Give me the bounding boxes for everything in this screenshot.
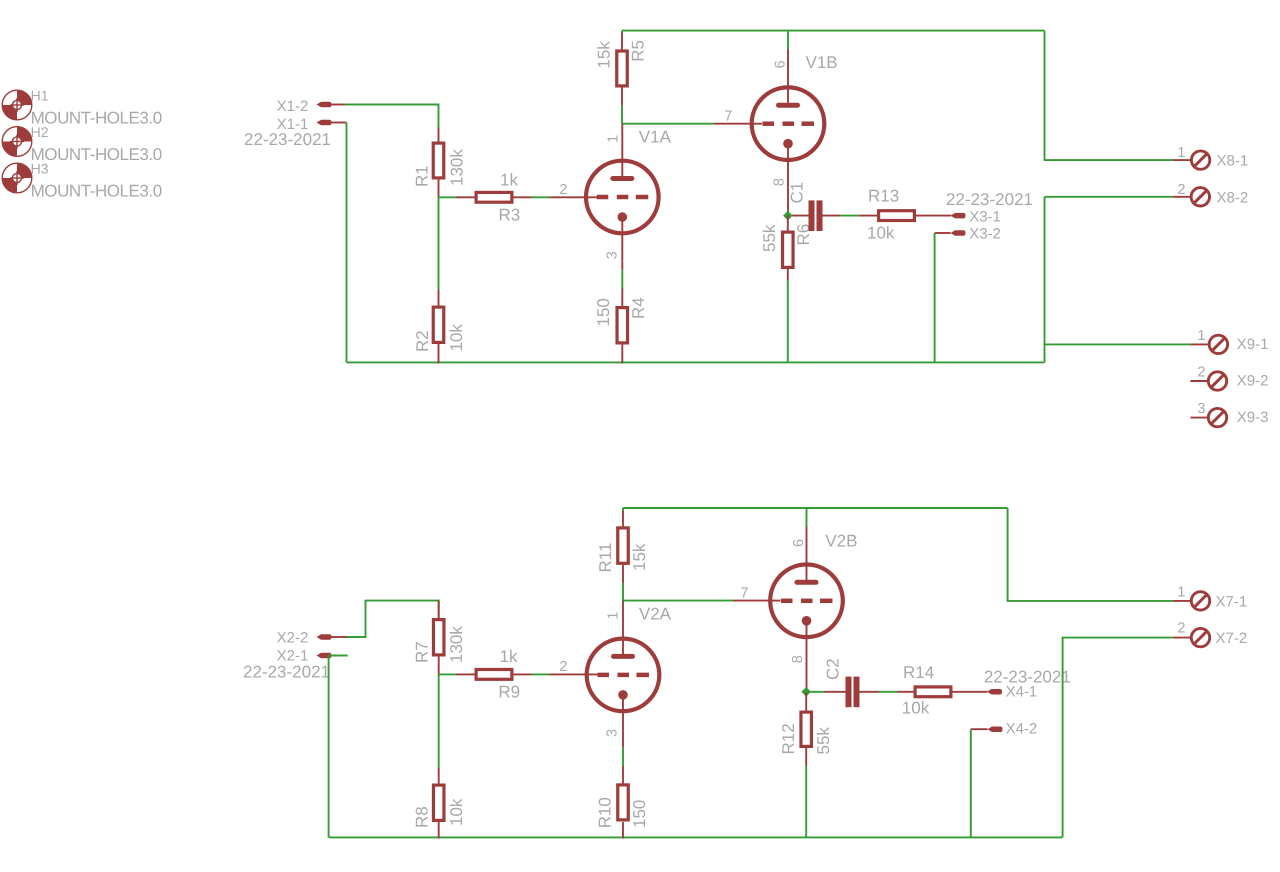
wire X8-2 down to ground bus <box>1044 197 1046 363</box>
screw terminal X8-2 <box>1191 188 1209 206</box>
connector pin X4-1 <box>987 689 1002 695</box>
svg-text:1k: 1k <box>500 171 518 190</box>
resistor R6 bottom lead <box>787 269 789 281</box>
svg-text:150: 150 <box>630 800 649 828</box>
svg-text:R8: R8 <box>413 806 432 828</box>
ground bus wire (channel 2) <box>329 836 1063 838</box>
pin lead X2-2 <box>331 636 347 638</box>
mounting hole H2 <box>2 127 32 157</box>
svg-text:15k: 15k <box>630 543 649 571</box>
wire bus to R5 <box>621 31 623 34</box>
svg-text:22-23-2021: 22-23-2021 <box>243 663 330 682</box>
triode V2B anode pin <box>806 527 808 583</box>
pin lead X3-2 <box>935 232 951 234</box>
svg-text:X4-2: X4-2 <box>1006 721 1038 738</box>
svg-text:R14: R14 <box>903 663 934 682</box>
wire X3-2 to ground bus <box>934 233 936 362</box>
mounting hole H1 <box>2 90 32 120</box>
screw terminal X9-1 <box>1209 335 1227 353</box>
svg-text:MOUNT-HOLE3.0: MOUNT-HOLE3.0 <box>31 145 162 164</box>
svg-text:V1A: V1A <box>639 127 672 146</box>
resistor R8 top lead <box>438 768 440 784</box>
wire C2 to R14 <box>879 691 898 693</box>
pin lead X4-2 <box>971 728 988 730</box>
svg-text:C2: C2 <box>824 658 843 680</box>
resistor R14 <box>915 687 951 697</box>
resistor R10 bottom lead <box>622 822 624 839</box>
wire C1 to R13 <box>841 215 859 217</box>
resistor R5 <box>617 51 628 86</box>
capacitor C2 right lead <box>860 691 880 693</box>
triode V1B <box>752 87 825 160</box>
svg-text:7: 7 <box>740 586 748 602</box>
screw terminal X7-2 <box>1191 628 1209 646</box>
capacitor C1 right lead <box>823 215 841 217</box>
pin lead X1-2 <box>331 104 345 106</box>
resistor R6 <box>783 232 794 267</box>
wire down to R2 <box>438 197 440 290</box>
wire V1A cathode to R4 <box>621 270 623 290</box>
wire R5 to V1A anode <box>621 105 623 124</box>
triode V2B cathode pin <box>806 621 808 692</box>
svg-text:22-23-2021: 22-23-2021 <box>984 667 1071 686</box>
svg-text:V2B: V2B <box>825 532 857 551</box>
screw terminal X9-2 <box>1208 372 1226 390</box>
capacitor C2 left lead <box>825 691 846 693</box>
resistor R11 top lead <box>622 511 624 526</box>
wire X1-2 to R1 top <box>345 105 439 129</box>
svg-text:2: 2 <box>1197 365 1205 381</box>
resistor R11 <box>618 528 629 563</box>
connector pin X2-1 <box>317 653 332 659</box>
svg-text:55k: 55k <box>814 727 833 755</box>
power bus wire (channel 2 top) <box>623 507 1008 509</box>
svg-text:2: 2 <box>559 659 567 675</box>
svg-text:MOUNT-HOLE3.0: MOUNT-HOLE3.0 <box>31 108 162 127</box>
wire junction to C2 <box>806 691 824 693</box>
svg-text:55k: 55k <box>760 224 779 252</box>
svg-text:1: 1 <box>606 612 622 620</box>
triode V2A cathode pin <box>622 695 624 748</box>
junction node (V1B cathode) <box>783 211 793 221</box>
resistor R13 left lead <box>859 215 877 217</box>
svg-text:6: 6 <box>773 60 789 68</box>
capacitor C1 <box>809 200 823 231</box>
resistor R10 top lead <box>622 766 624 785</box>
svg-text:R10: R10 <box>596 797 615 828</box>
resistor R2 bottom lead <box>438 344 440 364</box>
wire X1-1 down to ground bus <box>346 123 348 363</box>
svg-text:V1B: V1B <box>806 53 838 72</box>
svg-text:H2: H2 <box>31 124 49 140</box>
wire R3 to V1A grid <box>532 196 550 198</box>
svg-text:1k: 1k <box>500 647 518 666</box>
svg-text:2: 2 <box>1177 621 1185 637</box>
resistor R9 <box>476 670 512 680</box>
svg-text:X2-2: X2-2 <box>277 630 309 647</box>
svg-text:22-23-2021: 22-23-2021 <box>946 190 1033 209</box>
resistor R5 top lead <box>621 33 623 51</box>
pin lead X8-1 <box>1173 159 1191 161</box>
resistor R9 left lead <box>456 673 475 675</box>
resistor R13 right lead <box>916 215 951 217</box>
svg-text:C1: C1 <box>787 182 806 204</box>
svg-text:150: 150 <box>594 298 613 326</box>
resistor R4 <box>617 308 628 343</box>
resistor R7 <box>433 620 444 655</box>
wire node R7/R9/R8 <box>439 673 457 675</box>
svg-text:22-23-2021: 22-23-2021 <box>244 130 331 149</box>
connector pin X1-2 <box>317 102 332 108</box>
wire V2A cathode to R10 <box>622 747 624 766</box>
svg-text:3: 3 <box>1197 401 1205 417</box>
V2A grid pin <box>550 673 598 675</box>
wire X4-2 to ground bus <box>970 729 972 837</box>
triode V1B cathode pin <box>787 144 789 216</box>
resistor R4 bottom lead <box>621 345 623 364</box>
triode V1A cathode pin <box>621 217 623 270</box>
power bus wire (channel 1 top) <box>622 30 1045 32</box>
svg-text:V2A: V2A <box>639 604 672 623</box>
svg-text:10k: 10k <box>902 699 930 718</box>
wire X2-2 to R7 top <box>347 601 439 637</box>
triode V1A <box>586 161 659 234</box>
triode V1A anode pin <box>621 124 623 179</box>
svg-text:10k: 10k <box>867 223 895 242</box>
connector pin X3-2 <box>951 230 966 236</box>
wire bus to V1B anode <box>787 31 789 50</box>
svg-text:3: 3 <box>604 729 620 737</box>
svg-text:X9-1: X9-1 <box>1237 336 1269 353</box>
svg-text:X1-2: X1-2 <box>277 98 309 115</box>
svg-text:6: 6 <box>791 539 807 547</box>
pin lead X7-2 <box>1173 637 1191 639</box>
resistor R3 right lead <box>514 196 532 198</box>
svg-text:7: 7 <box>724 109 732 125</box>
screw terminal X7-1 <box>1191 592 1209 610</box>
resistor R13 <box>879 211 915 221</box>
wire node R1/R3/R2 <box>439 196 457 198</box>
connector pin X3-1 <box>951 213 966 219</box>
capacitor C2 <box>846 677 860 708</box>
svg-text:X7-2: X7-2 <box>1216 630 1248 647</box>
svg-text:130k: 130k <box>448 149 467 186</box>
junction node (V2B cathode) <box>801 687 811 697</box>
svg-text:8: 8 <box>790 655 806 663</box>
svg-text:R13: R13 <box>868 187 899 206</box>
svg-text:R4: R4 <box>629 297 648 319</box>
wire bus to V2B anode <box>806 508 808 527</box>
svg-text:R3: R3 <box>499 205 521 224</box>
wire R9 to V2A grid <box>532 673 550 675</box>
V1A grid pin <box>550 196 598 198</box>
svg-text:R5: R5 <box>628 40 647 62</box>
mounting hole H3 <box>2 163 32 193</box>
screw terminal X9-3 <box>1208 408 1226 426</box>
svg-text:H3: H3 <box>31 160 49 176</box>
svg-text:130k: 130k <box>447 626 466 663</box>
resistor R7 top lead <box>438 601 440 618</box>
wire V2A anode to V2B grid <box>623 600 733 602</box>
svg-text:X7-1: X7-1 <box>1216 594 1248 611</box>
wire power bus down to X7-1 <box>1008 508 1173 601</box>
svg-text:R7: R7 <box>413 641 432 663</box>
svg-text:3: 3 <box>605 251 621 259</box>
svg-text:1: 1 <box>1177 585 1185 601</box>
resistor R2 top lead <box>438 290 440 306</box>
svg-text:R11: R11 <box>596 543 615 573</box>
wire R11 to V2A anode <box>622 583 624 601</box>
triode V2A anode pin <box>622 601 624 657</box>
pin lead X9-3 <box>1190 417 1208 419</box>
triode V2A <box>587 639 660 712</box>
svg-text:1: 1 <box>1197 328 1205 344</box>
V1B grid pin <box>715 123 763 125</box>
svg-text:1: 1 <box>606 135 622 143</box>
wire V1A anode to V1B grid <box>622 123 715 125</box>
svg-text:MOUNT-HOLE3.0: MOUNT-HOLE3.0 <box>31 181 162 200</box>
wire X2-1 down to ground bus <box>328 656 330 838</box>
resistor R7 bottom lead <box>438 657 440 675</box>
pin lead X1-1 <box>331 122 347 124</box>
svg-text:15k: 15k <box>595 41 614 69</box>
pin lead X7-1 <box>1173 600 1191 602</box>
resistor R11 bottom lead <box>622 565 624 583</box>
screw terminal X8-1 <box>1191 151 1209 169</box>
resistor R12 <box>801 712 812 746</box>
resistor R1 top lead <box>438 128 440 142</box>
svg-text:R2: R2 <box>413 330 432 352</box>
resistor R12 top lead <box>805 692 807 711</box>
connector pin X2-2 <box>317 634 332 640</box>
pin lead X9-1 <box>1190 343 1209 345</box>
resistor R14 right lead <box>953 691 988 693</box>
connector pin X1-1 <box>317 120 332 126</box>
svg-text:X3-2: X3-2 <box>969 226 1001 243</box>
wire R12 to ground bus <box>805 766 807 838</box>
svg-text:10k: 10k <box>447 798 466 826</box>
resistor R3 <box>476 192 512 202</box>
V2B grid pin <box>733 600 781 602</box>
resistor R4 top lead <box>621 289 623 307</box>
svg-text:2: 2 <box>559 182 567 198</box>
resistor R1 bottom lead <box>438 180 440 198</box>
ground bus wire (channel 1) <box>347 361 1045 363</box>
svg-text:X9-2: X9-2 <box>1237 373 1269 390</box>
svg-text:R9: R9 <box>498 682 520 701</box>
wire down to R8 <box>438 674 440 768</box>
triode V2B <box>770 565 843 638</box>
capacitor C1 left lead <box>792 215 809 217</box>
svg-text:X9-3: X9-3 <box>1237 409 1269 426</box>
wire ground bus up to X7-2 <box>1063 638 1173 838</box>
connector pin X4-2 <box>988 726 1003 732</box>
resistor R10 <box>618 785 629 820</box>
svg-text:X3-1: X3-1 <box>969 208 1001 225</box>
wire branch to X9-1 <box>1045 343 1191 345</box>
resistor R8 bottom lead <box>438 822 440 839</box>
svg-text:10k: 10k <box>447 324 466 352</box>
wire R6 to ground bus <box>787 280 789 362</box>
wire bus to R11 <box>622 508 624 512</box>
svg-text:1: 1 <box>1177 145 1185 161</box>
resistor R12 bottom lead <box>805 748 807 766</box>
wire X8-2 row <box>1045 196 1173 198</box>
triode V1B anode pin <box>787 49 789 105</box>
svg-text:8: 8 <box>771 178 787 186</box>
resistor R9 right lead <box>514 673 532 675</box>
resistor R8 <box>433 785 444 820</box>
wire power bus down to X8-1 <box>1045 31 1173 161</box>
svg-text:R1: R1 <box>413 165 432 187</box>
svg-text:2: 2 <box>1177 182 1185 198</box>
svg-text:X8-1: X8-1 <box>1217 153 1249 170</box>
resistor R6 top lead <box>787 216 789 231</box>
resistor R2 <box>433 307 444 342</box>
resistor R1 <box>433 143 444 178</box>
resistor R5 bottom lead <box>621 88 623 106</box>
svg-text:X8-2: X8-2 <box>1217 189 1249 206</box>
resistor R3 left lead <box>456 196 475 198</box>
svg-text:H1: H1 <box>31 87 49 103</box>
pin lead X9-2 <box>1190 380 1208 382</box>
svg-text:R12: R12 <box>779 723 798 754</box>
resistor R14 left lead <box>898 691 914 693</box>
pin lead X8-2 <box>1173 196 1191 198</box>
pin lead X2-1 <box>329 655 348 657</box>
